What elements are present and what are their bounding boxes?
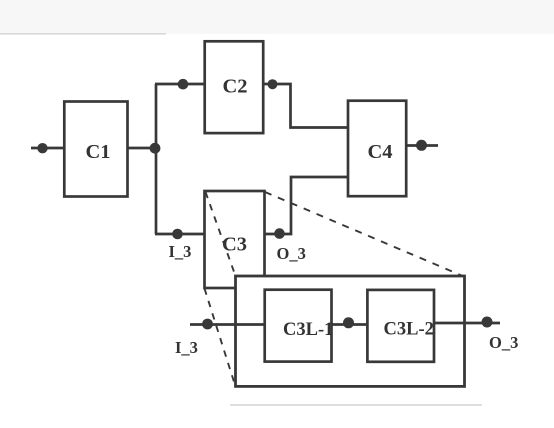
svg-text:I_3: I_3 [175,338,198,357]
svg-text:C4: C4 [368,141,393,163]
svg-text:C2: C2 [223,76,248,98]
node expanded output dot [482,317,493,328]
svg-text:C3L-1: C3L-1 [283,320,333,340]
svg-text:C3L-2: C3L-2 [384,320,434,340]
svg-text:C1: C1 [86,141,111,163]
node C3 input dot I_3 [172,229,183,240]
box C3L-1 [265,290,332,362]
wire vertical junction bus [155,84,158,234]
node C2 output dot [268,79,278,89]
box C3 [205,191,265,288]
wire expanded input I_3 [190,323,265,326]
scan background band top [0,0,554,34]
svg-text:O_3: O_3 [489,333,518,352]
svg-text:O_3: O_3 [277,244,306,263]
node C4 output dot [416,140,427,151]
box C2 [205,41,264,133]
wire C4 output [406,144,438,147]
box C1 [64,102,127,197]
dashed expansion line bottom-left [205,289,236,386]
scan artifact line top [0,33,166,35]
box expanded C3 detail [236,276,465,386]
wire I_3 into C3 [155,233,205,236]
wire C3 output to C4 lower input [265,177,349,234]
dashed expansion line top-right [265,192,464,277]
node expanded input dot [202,319,213,330]
wire C3L-1 to C3L-2 [332,323,368,326]
wire to C2 input [155,83,205,86]
node C2 input dot [178,79,189,90]
box C4 [348,101,406,197]
wire C2 output to C4 upper input [263,84,348,128]
svg-text:I_3: I_3 [169,242,192,261]
node input dot C1 [37,143,47,153]
wire expanded output O_3 [434,322,500,325]
scan artifact line bottom [230,404,482,406]
node junction dot after C1 [150,143,161,154]
node dot between C3L-1 and C3L-2 [343,317,354,328]
node C3 output dot O_3 [274,228,285,239]
wire C1 output to junction [128,147,158,150]
wire input to C1 [31,147,64,150]
dashed expansion line top-left [206,192,236,276]
svg-text:C3: C3 [222,234,247,256]
box C3L-2 [367,290,434,362]
